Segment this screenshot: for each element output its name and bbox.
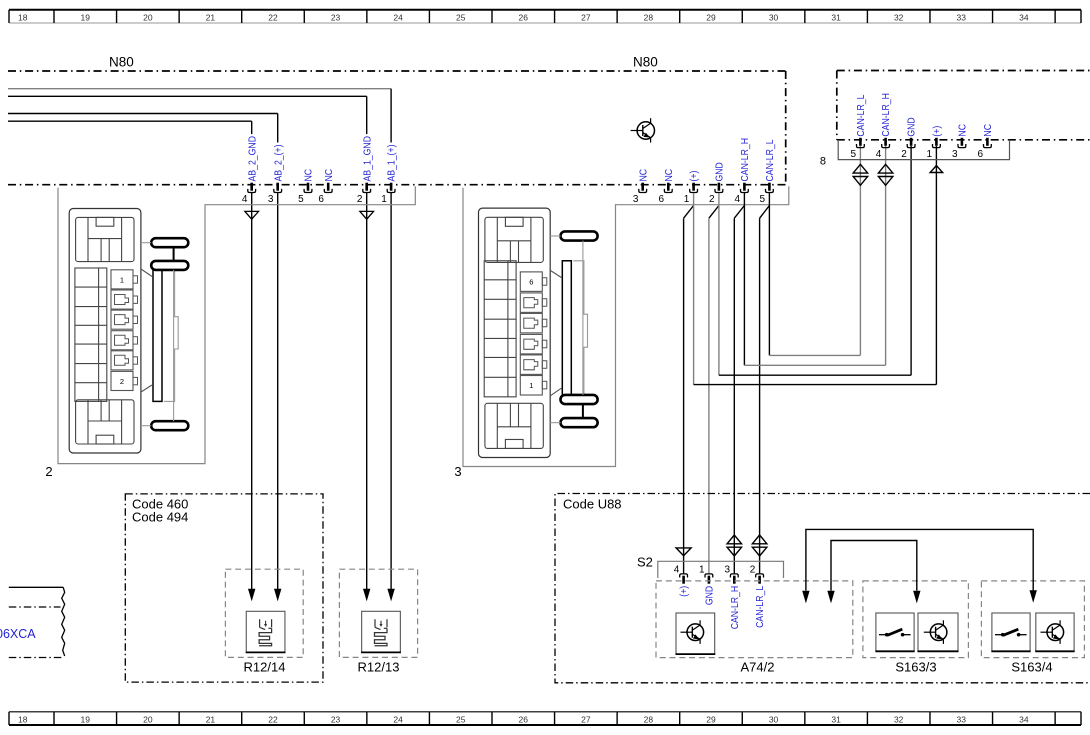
svg-text:20: 20 (143, 715, 153, 725)
svg-text:Code 494: Code 494 (132, 510, 188, 525)
svg-text:18: 18 (18, 715, 28, 725)
svg-text:25: 25 (456, 715, 466, 725)
svg-text:1: 1 (927, 149, 933, 160)
svg-text:5: 5 (851, 149, 857, 160)
svg-text:NC: NC (304, 169, 315, 182)
svg-text:3: 3 (724, 564, 730, 575)
svg-text:2: 2 (357, 194, 363, 205)
svg-text:30: 30 (769, 715, 779, 725)
svg-text:A74/2: A74/2 (741, 660, 775, 675)
svg-text:NC: NC (958, 124, 969, 137)
svg-text:(+): (+) (932, 126, 943, 137)
svg-text:6: 6 (318, 194, 324, 205)
svg-text:2: 2 (120, 377, 124, 386)
svg-text:06XCA: 06XCA (0, 627, 36, 641)
svg-text:1: 1 (699, 564, 705, 575)
svg-text:28: 28 (644, 715, 654, 725)
svg-text:CAN-LR_L: CAN-LR_L (755, 585, 766, 627)
svg-text:8: 8 (820, 156, 826, 168)
svg-text:31: 31 (831, 715, 841, 725)
svg-text:34: 34 (1019, 715, 1029, 725)
svg-text:1: 1 (684, 194, 690, 205)
svg-text:26: 26 (519, 13, 529, 23)
svg-text:AB_2_GND: AB_2_GND (247, 136, 258, 181)
svg-text:CAN-LR_H: CAN-LR_H (730, 586, 741, 630)
svg-text:NC: NC (324, 169, 335, 182)
svg-text:2: 2 (901, 149, 907, 160)
svg-text:6: 6 (658, 194, 664, 205)
svg-text:29: 29 (706, 715, 716, 725)
svg-text:21: 21 (206, 715, 216, 725)
svg-text:GND: GND (907, 117, 918, 136)
svg-text:23: 23 (331, 715, 341, 725)
svg-text:R12/14: R12/14 (244, 660, 286, 675)
svg-text:4: 4 (735, 194, 741, 205)
svg-text:2: 2 (709, 194, 715, 205)
svg-text:N80: N80 (633, 55, 658, 70)
svg-text:21: 21 (206, 13, 216, 23)
svg-text:34: 34 (1019, 13, 1029, 23)
svg-text:29: 29 (706, 13, 716, 23)
svg-text:GND: GND (705, 586, 716, 605)
svg-text:3: 3 (268, 194, 274, 205)
svg-text:4: 4 (876, 149, 882, 160)
svg-text:R12/13: R12/13 (358, 660, 400, 675)
svg-text:3: 3 (454, 464, 461, 479)
svg-text:19: 19 (81, 13, 91, 23)
svg-text:(+): (+) (689, 171, 700, 182)
svg-text:NC: NC (664, 169, 675, 182)
svg-text:31: 31 (831, 13, 841, 23)
svg-text:AB_1_GND: AB_1_GND (362, 136, 373, 182)
svg-text:28: 28 (644, 13, 654, 23)
svg-text:CAN-LR_H: CAN-LR_H (881, 93, 892, 137)
svg-text:CAN-LR_L: CAN-LR_L (765, 139, 776, 181)
svg-text:30: 30 (769, 13, 779, 23)
svg-text:2: 2 (45, 464, 52, 479)
svg-text:N80: N80 (109, 55, 134, 70)
svg-text:AB_2_(+): AB_2_(+) (273, 145, 284, 182)
svg-text:6: 6 (529, 278, 533, 287)
svg-text:26: 26 (519, 715, 529, 725)
svg-text:4: 4 (242, 194, 248, 205)
svg-text:24: 24 (393, 13, 403, 23)
svg-text:NC: NC (983, 124, 994, 137)
svg-text:5: 5 (760, 194, 766, 205)
svg-text:6: 6 (978, 149, 984, 160)
svg-text:19: 19 (81, 715, 91, 725)
svg-text:32: 32 (894, 715, 904, 725)
svg-text:23: 23 (331, 13, 341, 23)
svg-text:NC: NC (638, 169, 649, 182)
svg-text:1: 1 (381, 194, 387, 205)
svg-text:3: 3 (952, 149, 958, 160)
svg-text:Code U88: Code U88 (563, 496, 622, 511)
svg-text:1: 1 (120, 276, 124, 285)
svg-text:25: 25 (456, 13, 466, 23)
svg-text:2: 2 (750, 564, 756, 575)
svg-text:20: 20 (143, 13, 153, 23)
svg-text:27: 27 (581, 13, 591, 23)
svg-text:22: 22 (268, 13, 278, 23)
svg-text:27: 27 (581, 715, 591, 725)
svg-text:S163/3: S163/3 (895, 660, 936, 675)
svg-text:GND: GND (715, 162, 726, 181)
svg-text:1: 1 (529, 381, 533, 390)
svg-text:22: 22 (268, 715, 278, 725)
svg-text:AB_1_(+): AB_1_(+) (387, 145, 398, 182)
svg-text:32: 32 (894, 13, 904, 23)
svg-text:33: 33 (957, 13, 967, 23)
svg-text:5: 5 (298, 194, 304, 205)
svg-text:CAN-LR_L: CAN-LR_L (856, 94, 867, 136)
svg-text:S2: S2 (637, 555, 653, 570)
svg-text:18: 18 (18, 13, 28, 23)
svg-text:3: 3 (633, 194, 639, 205)
svg-text:(+): (+) (679, 586, 690, 597)
svg-text:4: 4 (674, 564, 680, 575)
svg-text:S163/4: S163/4 (1011, 660, 1052, 675)
svg-text:33: 33 (957, 715, 967, 725)
svg-text:24: 24 (393, 715, 403, 725)
svg-text:CAN-LR_H: CAN-LR_H (740, 138, 751, 182)
